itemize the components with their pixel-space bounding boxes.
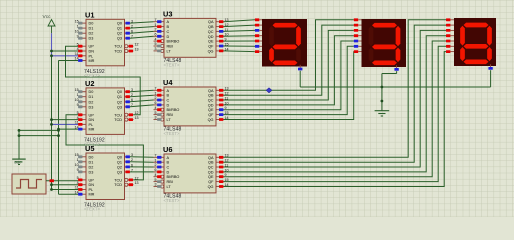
svg-text:PL: PL — [89, 188, 94, 192]
svg-text:QF: QF — [208, 180, 214, 184]
svg-text:TCU: TCU — [114, 45, 122, 49]
svg-text:CLK: CLK — [14, 161, 21, 165]
counter U1 74LS192 — [75, 11, 139, 79]
svg-text:TCD: TCD — [114, 118, 122, 122]
wire ground stem mid — [381, 74, 383, 111]
wire U3 QD to DS1 segment d — [224, 35, 256, 38]
junction common net — [381, 86, 384, 103]
svg-text:Vcc: Vcc — [43, 14, 52, 20]
svg-text:D3: D3 — [89, 37, 94, 41]
svg-text:UP: UP — [89, 178, 95, 182]
svg-text:BI/RBO: BI/RBO — [167, 40, 180, 44]
wire U4 QE to DS2 segment e — [224, 41, 354, 110]
svg-text:Q0: Q0 — [117, 90, 122, 94]
wire U4 QF to DS2 segment f — [224, 46, 354, 114]
svg-text:QB: QB — [208, 161, 214, 165]
wire U1 Q3 to U3 — [130, 36, 154, 38]
wire U5 Q3 to U6 — [130, 171, 154, 173]
wire U6 QF to DS3 segment f — [224, 46, 447, 181]
svg-text:<TEXT>: <TEXT> — [84, 73, 100, 78]
wire clock to U5 UP — [46, 179, 78, 182]
ground GND1 — [12, 159, 26, 164]
wire U1 MR tie — [59, 60, 79, 62]
svg-text:<TEXT>: <TEXT> — [84, 207, 100, 212]
wire U1 DN tie — [50, 50, 78, 53]
svg-text:12: 12 — [135, 176, 139, 180]
clock generator CLK — [12, 161, 46, 195]
wire U6 QG to DS3 segment g — [224, 52, 447, 187]
svg-text:DN: DN — [89, 183, 95, 187]
wire U1 Q1 to U3 — [130, 27, 154, 29]
wire U4 QD to DS2 segment d — [224, 36, 354, 105]
svg-text:QB: QB — [208, 25, 214, 29]
svg-text:BI/RBO: BI/RBO — [167, 108, 180, 112]
wire U4 QC to DS2 segment c — [224, 30, 354, 100]
svg-text:Q0: Q0 — [117, 22, 122, 26]
svg-text:MR: MR — [89, 59, 95, 63]
svg-text:QG: QG — [208, 185, 214, 189]
wire DS1 common down — [299, 71, 301, 87]
svg-text:RBI: RBI — [167, 180, 173, 184]
svg-text:12: 12 — [135, 111, 139, 115]
wire U5 Q1 to U6 — [130, 161, 154, 163]
wire U2 PL tie — [50, 123, 78, 126]
wire U3 QE to DS1 segment e — [224, 40, 256, 42]
wire U5 PL tie — [50, 188, 78, 191]
svg-text:Q1: Q1 — [117, 95, 122, 99]
svg-text:13: 13 — [135, 181, 139, 185]
wire U2 Q2 to U4 — [130, 100, 154, 102]
svg-text:D2: D2 — [89, 100, 94, 104]
svg-text:TCD: TCD — [114, 183, 122, 187]
svg-text:LT: LT — [167, 49, 172, 53]
svg-text:D0: D0 — [89, 155, 94, 159]
svg-text:QA: QA — [208, 156, 214, 160]
svg-text:<TEXT>: <TEXT> — [164, 63, 180, 68]
svg-text:DN: DN — [89, 118, 95, 122]
svg-text:D0: D0 — [89, 90, 94, 94]
wire U2 Q1 to U4 — [130, 95, 154, 97]
display DS2 7-segment digit 3 — [354, 18, 406, 70]
svg-text:MR: MR — [89, 128, 95, 132]
wire U4 QB to DS2 segment b — [224, 25, 354, 95]
svg-text:14: 14 — [75, 125, 79, 129]
svg-text:D: D — [167, 35, 170, 39]
wire U6 QC to DS3 segment c — [224, 30, 447, 167]
wire DS3 common down — [490, 70, 492, 87]
svg-text:QF: QF — [208, 113, 214, 117]
svg-text:TCD: TCD — [114, 50, 122, 54]
svg-text:10: 10 — [75, 163, 79, 167]
svg-text:QD: QD — [208, 35, 214, 39]
svg-text:D2: D2 — [89, 165, 94, 169]
wire Vcc rail vertical x51.5 — [51, 33, 53, 189]
svg-text:11: 11 — [75, 121, 79, 125]
svg-text:Q1: Q1 — [117, 27, 122, 31]
svg-text:D3: D3 — [89, 105, 94, 109]
wire U4 QA to DS2 segment a — [224, 20, 354, 91]
svg-text:DN: DN — [89, 50, 95, 54]
svg-text:Q3: Q3 — [117, 170, 122, 174]
svg-text:U5: U5 — [85, 144, 94, 153]
decoder U3 74LS48 — [154, 10, 229, 68]
svg-text:C: C — [167, 99, 170, 103]
svg-text:QC: QC — [208, 99, 214, 103]
power Vcc — [43, 14, 56, 33]
svg-text:11: 11 — [75, 186, 79, 190]
svg-text:11: 11 — [75, 52, 79, 56]
svg-text:15: 15 — [75, 19, 79, 23]
wire cascade U5 TCU to U2 UP — [66, 115, 143, 180]
svg-text:QB: QB — [208, 94, 214, 98]
svg-text:MR: MR — [89, 193, 95, 197]
decoder U4 74LS48 — [154, 78, 229, 136]
svg-text:U2: U2 — [85, 79, 94, 88]
svg-text:LT: LT — [167, 118, 172, 122]
wire U3 QC to DS1 segment c — [224, 30, 256, 31]
svg-text:D: D — [167, 170, 170, 174]
wire U6 QA to DS3 segment a — [224, 20, 447, 158]
svg-text:15: 15 — [75, 153, 79, 157]
svg-text:C: C — [167, 166, 170, 170]
wire U6 QE to DS3 segment e — [224, 41, 447, 177]
wire MR rail vertical x58.5 — [58, 61, 60, 195]
counter U5 74LS192 — [75, 144, 139, 212]
svg-text:D: D — [167, 103, 170, 107]
svg-text:Q0: Q0 — [117, 155, 122, 159]
svg-text:10: 10 — [75, 29, 79, 33]
svg-text:RBI: RBI — [167, 113, 173, 117]
svg-text:UP: UP — [89, 45, 95, 49]
svg-text:U3: U3 — [163, 10, 172, 19]
wire U3 QA to DS1 segment a — [224, 20, 256, 22]
wire DS2 common jog — [382, 71, 397, 73]
svg-text:RBI: RBI — [167, 45, 173, 49]
svg-text:U6: U6 — [163, 145, 172, 154]
svg-text:D0: D0 — [89, 22, 94, 26]
wire U1 Q0 to U3 — [130, 22, 154, 23]
wire U2 MR tie — [57, 128, 78, 131]
svg-text:D1: D1 — [89, 27, 94, 31]
wire U4 QG to DS2 segment g — [224, 52, 354, 120]
display DS3 7-segment digit 8 — [446, 18, 496, 70]
wire U2 DN tie — [50, 118, 78, 121]
svg-text:Q3: Q3 — [117, 105, 122, 109]
svg-text:QG: QG — [208, 118, 214, 122]
wire common cathode net horizontal — [300, 86, 490, 88]
svg-text:C: C — [167, 30, 170, 34]
svg-text:Q2: Q2 — [117, 165, 122, 169]
wire U3 QB to DS1 segment b — [224, 25, 256, 27]
svg-text:QE: QE — [208, 108, 214, 112]
svg-text:UP: UP — [89, 113, 95, 117]
svg-text:U4: U4 — [163, 78, 173, 87]
wire U5 DN tie — [50, 183, 78, 186]
wire U2 Q3 to U4 — [130, 105, 154, 107]
svg-text:Q2: Q2 — [117, 32, 122, 36]
wire U2 Q0 to U4 — [130, 90, 154, 91]
svg-text:12: 12 — [135, 43, 139, 47]
svg-text:Q3: Q3 — [117, 37, 122, 41]
svg-text:D1: D1 — [89, 160, 94, 164]
wire U5 Q2 to U6 — [130, 166, 154, 168]
wire U6 QB to DS3 segment b — [224, 25, 447, 162]
svg-text:QE: QE — [208, 40, 214, 44]
svg-text:QE: QE — [208, 175, 214, 179]
svg-text:<TEXT>: <TEXT> — [164, 131, 180, 136]
svg-text:QF: QF — [208, 45, 214, 49]
wire U1 PL tie — [50, 54, 78, 57]
svg-text:Q2: Q2 — [117, 100, 122, 104]
wire cascade U2 TCU to U1 UP — [66, 46, 141, 115]
svg-text:D2: D2 — [89, 32, 94, 36]
svg-text:Q1: Q1 — [117, 160, 122, 164]
svg-text:QD: QD — [208, 170, 214, 174]
svg-text:U1: U1 — [85, 11, 94, 20]
wire U3 QF to DS1 segment f — [224, 45, 256, 47]
svg-text:15: 15 — [75, 88, 79, 92]
svg-text:QD: QD — [208, 103, 214, 107]
svg-text:14: 14 — [75, 190, 79, 194]
svg-text:QC: QC — [208, 30, 214, 34]
ground GND2 — [375, 111, 390, 116]
svg-text:13: 13 — [135, 47, 139, 51]
display DS1 7-segment digit 2 — [255, 18, 307, 70]
svg-text:BI/RBO: BI/RBO — [167, 175, 180, 179]
svg-text:QA: QA — [208, 89, 214, 93]
svg-text:QA: QA — [208, 20, 214, 24]
wire U5 Q0 to U6 — [130, 156, 154, 159]
wire U6 QD to DS3 segment d — [224, 36, 447, 172]
wire U3 QG to DS1 segment g — [224, 50, 256, 53]
svg-text:QG: QG — [208, 49, 214, 53]
node marker diamond — [266, 88, 272, 93]
svg-text:QC: QC — [208, 166, 214, 170]
counter U2 74LS192 — [75, 79, 139, 147]
svg-text:TCU: TCU — [114, 113, 122, 117]
svg-text:PL: PL — [89, 123, 94, 127]
svg-text:D3: D3 — [89, 170, 94, 174]
svg-text:10: 10 — [75, 98, 79, 102]
svg-text:14: 14 — [75, 57, 79, 61]
svg-text:13: 13 — [135, 116, 139, 120]
svg-text:TCU: TCU — [114, 178, 122, 182]
svg-text:D1: D1 — [89, 95, 94, 99]
decoder U6 74LS48 — [154, 145, 229, 203]
wire ground horizontals left — [18, 129, 60, 159]
wire U5 MR tie — [59, 193, 79, 195]
svg-text:PL: PL — [89, 54, 94, 58]
svg-text:<TEXT>: <TEXT> — [164, 198, 180, 203]
wire U1 Q2 to U3 — [130, 31, 154, 33]
svg-text:LT: LT — [167, 185, 172, 189]
